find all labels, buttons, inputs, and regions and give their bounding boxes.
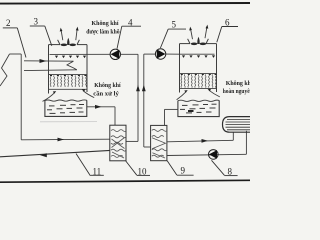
packing bed T1 (49, 74, 88, 76)
wire: air inlet duct top line with arrow (24, 60, 73, 62)
packing bed T2 (180, 73, 217, 75)
tank B1 of T1 (45, 100, 87, 101)
wire: cut-off duct top-left (0, 54, 10, 86)
exhaust air arrows T2 (191, 29, 193, 40)
absorber tower T1 shell (49, 40, 88, 94)
svg-text:cần xử lý: cần xử lý (93, 90, 119, 97)
wire: pipe into HX10 upper (21, 138, 110, 141)
pump P8 (209, 150, 219, 160)
top border (0, 2, 250, 5)
liquid dashes tank1 (47, 105, 84, 114)
svg-text:hoàn nguyên: hoàn nguyên (223, 88, 250, 95)
svg-text:3: 3 (34, 17, 39, 27)
svg-text:Không khí: Không khí (226, 80, 250, 87)
svg-text:được làm khô: được làm khô (86, 28, 119, 35)
pump P4 (110, 49, 120, 59)
wire: cooling water down pipe (20, 54, 22, 140)
wire: bottom return line to left edge (0, 150, 110, 156)
spray header T1 (50, 53, 111, 55)
wire: pump4 suction (121, 53, 139, 55)
svg-text:2: 2 (6, 18, 11, 28)
heater HX7 finned (223, 117, 253, 133)
curved air arrows into T1 bottom (43, 92, 55, 101)
wire: tank2 outlet to HX9 (165, 108, 178, 110)
svg-text:8: 8 (228, 167, 233, 177)
heat exchanger HX9 (151, 125, 167, 160)
svg-text:Không khí: Không khí (92, 20, 119, 27)
nozzles T2 (182, 55, 215, 58)
regenerator tower T2 shell (180, 39, 217, 93)
fan F1 (item 3) (61, 44, 68, 47)
wire: HX9 to heater line (167, 140, 233, 142)
heat exchanger HX10 (110, 125, 126, 161)
wire: heater to pump8 to HX9 line (167, 154, 246, 155)
curved air arrows into T2 bottom (177, 92, 187, 100)
wire: air inlet duct bottom line (24, 69, 77, 72)
wire: pump5 suction (144, 53, 156, 55)
fan F2 (item 6) (191, 43, 198, 46)
faint under-tank line (40, 121, 97, 123)
spray header T2 (180, 53, 215, 55)
svg-text:6: 6 (225, 18, 230, 28)
tank B2 of T2 (178, 100, 219, 101)
svg-text:5: 5 (172, 20, 177, 30)
liquid dashes tank2 (180, 104, 217, 113)
nozzles T1 (55, 56, 86, 59)
svg-text:Không khí: Không khí (94, 82, 121, 89)
pump P5 (155, 49, 165, 59)
bottom border (0, 180, 250, 182)
svg-text:9: 9 (181, 166, 186, 176)
wire: pump5 discharge to T2 (166, 53, 180, 55)
wire: ribbon swallow-tail (67, 61, 77, 70)
exhaust air arrows T1 (61, 30, 63, 41)
wire: tank1 outlet to HX10 (87, 106, 115, 108)
